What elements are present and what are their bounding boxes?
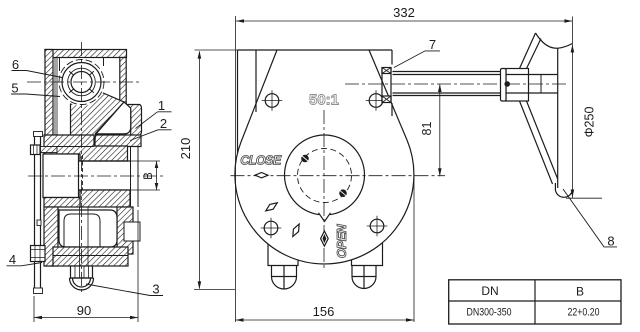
worm gear wedge (hatched) <box>71 91 125 146</box>
svg-text:90: 90 <box>77 303 91 318</box>
indicator big circle <box>285 135 365 215</box>
coupling bolt lower (boxed X) <box>382 96 391 103</box>
svg-text:DN: DN <box>481 284 498 298</box>
input shaft outline <box>393 72 502 96</box>
mounting hole bottom-right <box>367 216 388 237</box>
plug bore verticals <box>80 207 89 266</box>
body right edge <box>391 50 393 116</box>
svg-text:22+0.20: 22+0.20 <box>568 307 600 319</box>
svg-text:156: 156 <box>313 304 335 319</box>
coupling bolt upper (boxed X) <box>382 68 391 74</box>
wall inner liner lines <box>55 58 57 265</box>
housing upper right wall L-block (hatched) <box>120 58 142 138</box>
spoke boss tick <box>540 75 542 94</box>
bearing outer dashed circle <box>59 60 104 105</box>
flange plate top cap <box>34 132 43 137</box>
body bottom arc <box>235 140 414 264</box>
bearing bore white <box>58 58 106 106</box>
lower housing right wall (hatched) <box>117 207 133 254</box>
dimension 332 line <box>236 20 572 22</box>
left shoulder slant <box>241 50 277 142</box>
below-bore hatch left <box>44 198 80 208</box>
housing floor band (hatched) <box>95 135 141 147</box>
dimension 156 line <box>236 319 415 321</box>
B dimension line <box>156 161 158 190</box>
svg-text:OPEN: OPEN <box>335 223 349 258</box>
indicator dashed circle <box>298 149 352 203</box>
svg-text:1: 1 <box>158 98 165 113</box>
part label 4 <box>9 252 16 267</box>
worm wheel hub outline in cavity <box>64 214 100 247</box>
svg-text:DN300-350: DN300-350 <box>467 307 512 319</box>
small bracket tick <box>37 220 41 226</box>
large socket bore (white) <box>43 154 79 198</box>
90 dimension line <box>34 317 138 319</box>
part label 3 <box>152 282 159 297</box>
dimension 332 extension left / 156 extension left <box>235 16 237 322</box>
svg-text:B: B <box>143 172 155 180</box>
pointer notch V <box>319 213 331 222</box>
lower stud bolt <box>31 246 46 262</box>
body top plate line <box>238 49 393 51</box>
part label 8 <box>607 234 614 249</box>
part label 5 <box>11 81 18 96</box>
lower housing left wall (hatched) <box>44 207 58 266</box>
upper stud shank (hatched) <box>41 147 58 153</box>
left pad <box>272 266 297 290</box>
clamp bolt <box>504 81 510 87</box>
below-bore hatch right <box>80 190 130 207</box>
dimension 210 top extension <box>195 49 238 51</box>
bearing inner race <box>68 68 96 96</box>
svg-text:7: 7 <box>429 37 436 52</box>
right shoulder slant <box>369 50 407 140</box>
front horizontal centerline <box>231 175 446 177</box>
table row divider <box>449 300 621 302</box>
front vertical centerline <box>323 110 325 268</box>
inner vertical rib <box>255 50 257 112</box>
rim inner edge <box>557 48 559 188</box>
bottom band top edge <box>53 255 128 257</box>
svg-text:5: 5 <box>11 81 18 96</box>
small stem bore lines <box>79 161 131 190</box>
left view vertical centerline <box>81 42 83 294</box>
svg-text:2: 2 <box>160 116 167 131</box>
svg-text:6: 6 <box>12 57 19 72</box>
dimension 210 bottom extension <box>194 289 235 291</box>
B dimension extension lines <box>131 161 160 190</box>
svg-text:81: 81 <box>420 122 434 136</box>
svg-text:50:1: 50:1 <box>309 92 339 109</box>
bearing shaft bore <box>71 72 92 93</box>
svg-text:8: 8 <box>607 234 614 249</box>
marker diamond OPEN (6 o'clock, filled core) <box>321 231 329 246</box>
mounting hole bottom-left <box>261 218 282 239</box>
shaft inner lines / horizontal spoke <box>393 75 558 94</box>
rim bottom hook <box>555 183 572 197</box>
table column divider <box>534 280 536 324</box>
svg-text:4: 4 <box>9 252 16 267</box>
rim top curve <box>536 33 573 48</box>
housing top plate (hatched) <box>45 50 127 58</box>
bottom plug (ribbed) <box>71 266 93 278</box>
svg-text:CLOSE: CLOSE <box>240 154 282 168</box>
stem square hidden edge (dashed) <box>82 155 84 196</box>
lower cavity (white) <box>59 210 117 247</box>
marker diamond CLOSE (9 o'clock) <box>255 173 268 178</box>
upper stud bolt <box>31 145 41 155</box>
lower housing bottom band (hatched) <box>53 247 128 266</box>
svg-text:Φ250: Φ250 <box>583 107 597 138</box>
right foot <box>352 243 383 266</box>
bearing bore wall stubs <box>60 58 104 72</box>
plug dome <box>70 278 94 290</box>
table frame <box>449 280 621 324</box>
svg-text:332: 332 <box>393 5 415 20</box>
coupling side plates <box>382 68 391 103</box>
housing left wall (hatched) <box>45 50 53 267</box>
dimension 210 line <box>198 52 200 289</box>
mounting hole top-right <box>366 90 387 111</box>
part label 2 <box>160 116 167 131</box>
mounting flange plate <box>35 136 41 292</box>
bearing outer race <box>62 63 101 102</box>
wheel hub <box>506 69 529 102</box>
90 dimension extension lines <box>34 210 138 322</box>
dimension 156 right extension <box>413 177 415 322</box>
part label 7 <box>429 37 436 52</box>
socket horizontal centerline <box>28 175 163 177</box>
left foot <box>268 244 298 266</box>
shaft centerline <box>345 83 568 85</box>
dimension 81 line <box>439 84 441 176</box>
notch erase <box>319 211 330 216</box>
marker diamond 6:30 <box>290 223 302 238</box>
svg-text:210: 210 <box>178 138 193 160</box>
svg-text:B: B <box>576 285 584 299</box>
part label 6 <box>12 57 19 72</box>
gear cavity (white) <box>96 102 131 134</box>
bearing ball ticks <box>69 71 94 93</box>
screw dot 2 <box>339 189 347 197</box>
mounting hole top-left <box>262 90 283 111</box>
svg-text:3: 3 <box>152 282 159 297</box>
screw dot 1 <box>301 155 309 163</box>
phi250 bottom extension <box>566 197 602 199</box>
flange plate bottom cap <box>34 288 43 294</box>
lower spoke <box>520 101 558 184</box>
upper spoke <box>520 33 542 69</box>
clamp collar <box>501 69 507 102</box>
lower right notch (white) <box>124 222 140 241</box>
marker diamond 7:30 <box>264 200 279 213</box>
dimension phi250 line (also 332 extension) <box>571 17 573 199</box>
part label 1 <box>158 98 165 113</box>
right pad <box>352 266 376 289</box>
flange bottom edge line <box>44 146 94 148</box>
bearing horizontal centerline <box>27 81 142 83</box>
body left edge <box>237 50 239 153</box>
socket flange band (hatched) <box>44 135 128 161</box>
housing mid right wall lines <box>131 147 139 208</box>
